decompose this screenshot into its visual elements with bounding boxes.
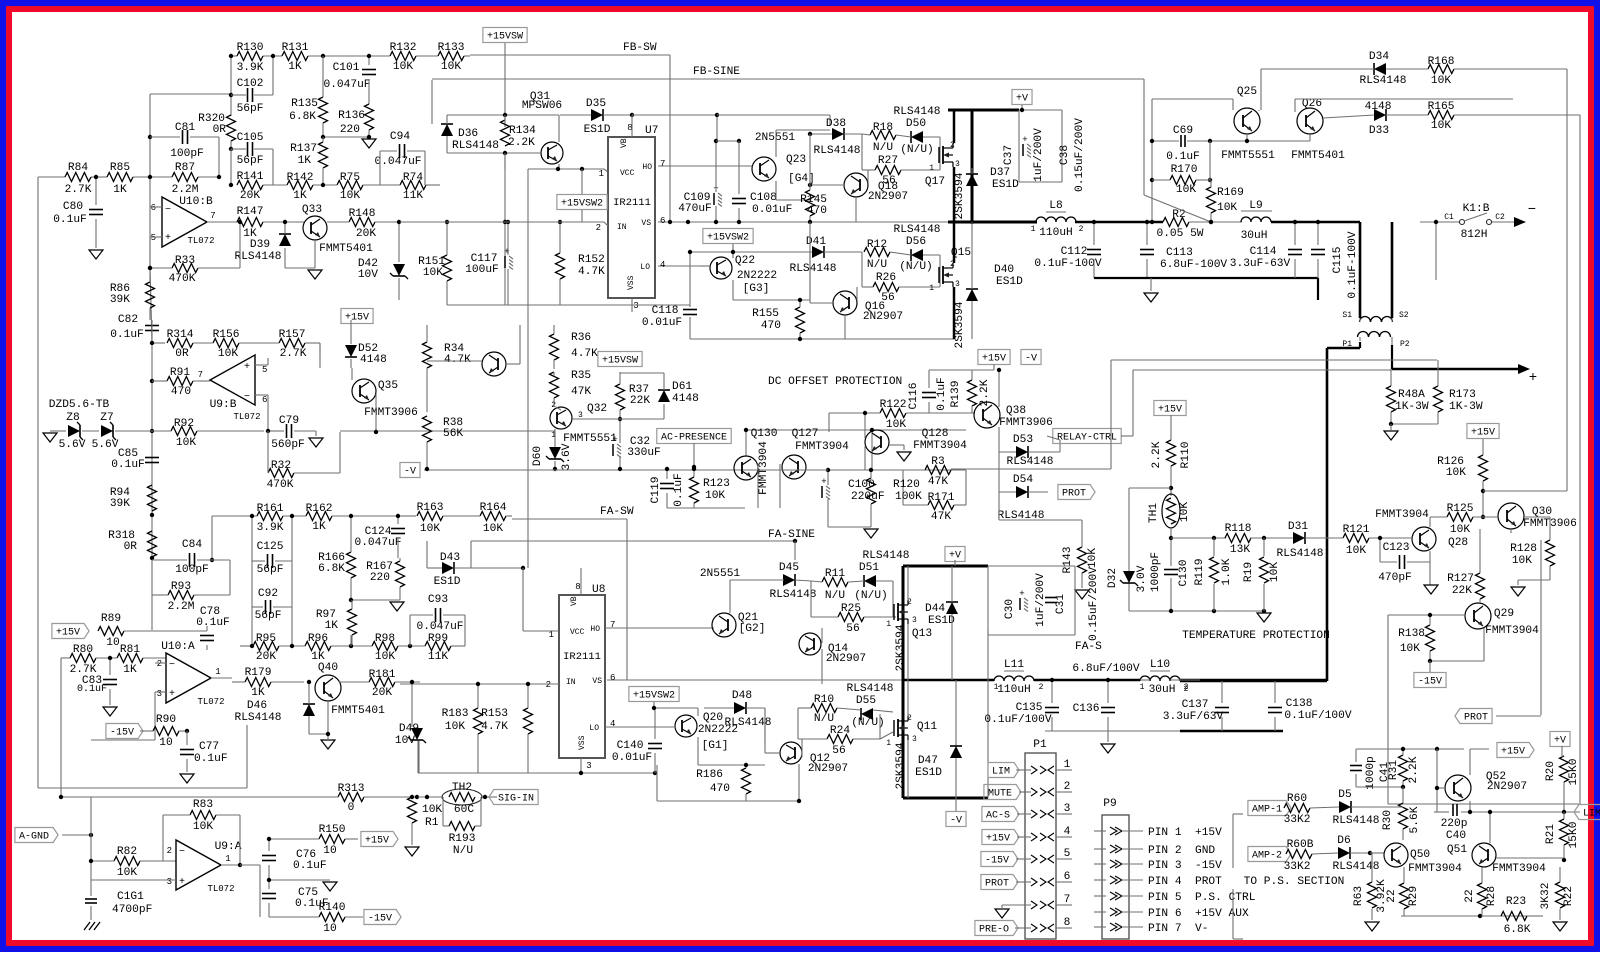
svg-text:+15VSW2: +15VSW2 xyxy=(561,199,603,210)
svg-text:−: − xyxy=(1528,202,1536,218)
svg-text:ES1D: ES1D xyxy=(928,615,955,627)
svg-text:+: + xyxy=(1529,370,1537,386)
svg-text:FMMT5551: FMMT5551 xyxy=(563,433,617,445)
svg-text:PIN 5 P.S. CTRL: PIN 5 P.S. CTRL xyxy=(1148,892,1256,904)
svg-text:7: 7 xyxy=(198,370,203,380)
svg-text:0: 0 xyxy=(348,802,355,814)
svg-text:R136: R136 xyxy=(338,110,365,122)
svg-text:C92: C92 xyxy=(258,588,278,600)
svg-text:+V: +V xyxy=(1016,94,1028,105)
svg-text:RLS4148: RLS4148 xyxy=(1007,456,1054,468)
svg-text:0.01uF: 0.01uF xyxy=(612,752,652,764)
svg-text:2N5551: 2N5551 xyxy=(755,132,796,144)
svg-text:220: 220 xyxy=(370,572,390,584)
svg-text:D51: D51 xyxy=(859,562,879,574)
svg-text:22: 22 xyxy=(1386,889,1398,902)
svg-text:D32: D32 xyxy=(1107,568,1119,588)
svg-text:C118: C118 xyxy=(652,305,679,317)
svg-text:PRE-O: PRE-O xyxy=(979,925,1009,936)
svg-text:10K: 10K xyxy=(422,804,442,816)
svg-text:R130: R130 xyxy=(237,42,264,54)
svg-text:6.8uF/100V: 6.8uF/100V xyxy=(1072,663,1139,675)
svg-text:0.047uF: 0.047uF xyxy=(355,537,402,549)
svg-text:D33: D33 xyxy=(1369,125,1389,137)
svg-text:U9:B: U9:B xyxy=(210,399,237,411)
svg-text:10K: 10K xyxy=(375,651,395,663)
svg-text:20K: 20K xyxy=(240,190,260,202)
svg-text:R133: R133 xyxy=(438,42,465,54)
svg-text:2: 2 xyxy=(1184,685,1189,694)
svg-text:RLS4148: RLS4148 xyxy=(814,145,861,157)
svg-text:Q35: Q35 xyxy=(378,380,398,392)
svg-text:PIN 6 +15V AUX: PIN 6 +15V AUX xyxy=(1148,908,1249,920)
svg-text:10K: 10K xyxy=(483,523,503,535)
svg-text:0.1uF: 0.1uF xyxy=(673,473,685,507)
svg-text:TEMPERATURE PROTECTION: TEMPERATURE PROTECTION xyxy=(1182,630,1330,642)
svg-text:1: 1 xyxy=(929,284,934,293)
svg-text:D37: D37 xyxy=(990,167,1010,179)
svg-text:10K: 10K xyxy=(1431,75,1451,87)
svg-text:D39: D39 xyxy=(250,239,270,251)
svg-text:+15VSW: +15VSW xyxy=(487,32,523,43)
svg-text:4700pF: 4700pF xyxy=(112,904,152,916)
svg-text:1K: 1K xyxy=(251,687,265,699)
svg-text:5.6V: 5.6V xyxy=(92,439,119,451)
svg-text:10K: 10K xyxy=(1346,545,1366,557)
svg-text:R22: R22 xyxy=(1563,886,1575,906)
svg-text:10K: 10K xyxy=(445,721,465,733)
svg-text:R125: R125 xyxy=(1447,503,1474,515)
svg-text:C30: C30 xyxy=(1004,599,1016,619)
svg-text:1K: 1K xyxy=(113,184,127,196)
svg-text:RLS4148: RLS4148 xyxy=(452,140,499,152)
svg-text:D34: D34 xyxy=(1369,51,1389,63)
svg-text:1K-3W: 1K-3W xyxy=(1449,401,1483,413)
svg-text:D47: D47 xyxy=(918,755,938,767)
svg-text:+15VSW: +15VSW xyxy=(602,356,638,367)
svg-text:1K: 1K xyxy=(123,664,137,676)
svg-text:C94: C94 xyxy=(390,131,410,143)
svg-text:2: 2 xyxy=(596,223,601,233)
svg-text:N/U: N/U xyxy=(825,590,845,602)
svg-text:C137: C137 xyxy=(1182,699,1209,711)
svg-text:R31: R31 xyxy=(1388,760,1400,780)
svg-text:R19: R19 xyxy=(1243,562,1255,582)
svg-text:0.15uF/200V: 0.15uF/200V xyxy=(1088,567,1100,641)
svg-text:C38: C38 xyxy=(1059,145,1071,165)
svg-text:812H: 812H xyxy=(1461,229,1488,241)
svg-text:ES1D: ES1D xyxy=(992,179,1019,191)
svg-text:C84: C84 xyxy=(182,539,202,551)
svg-text:3.9K: 3.9K xyxy=(237,62,264,74)
svg-text:470K: 470K xyxy=(267,479,294,491)
svg-text:10: 10 xyxy=(323,845,337,857)
svg-text:FA-SINE: FA-SINE xyxy=(768,529,815,541)
svg-text:FMMT5401: FMMT5401 xyxy=(331,705,385,717)
svg-text:FB-SW: FB-SW xyxy=(623,42,657,54)
svg-text:C125: C125 xyxy=(257,541,284,553)
svg-text:D31: D31 xyxy=(1288,521,1308,533)
svg-text:Q22: Q22 xyxy=(735,255,755,267)
svg-text:47K: 47K xyxy=(571,386,591,398)
svg-text:R131: R131 xyxy=(282,42,309,54)
svg-text:Q23: Q23 xyxy=(786,154,806,166)
svg-text:-V: -V xyxy=(404,467,416,478)
svg-text:C37: C37 xyxy=(1003,145,1015,165)
svg-text:R147: R147 xyxy=(237,206,264,218)
svg-text:R28: R28 xyxy=(1486,886,1498,906)
svg-text:5.6V: 5.6V xyxy=(59,439,86,451)
svg-text:P1: P1 xyxy=(1033,739,1047,751)
svg-text:FB-SINE: FB-SINE xyxy=(693,66,740,78)
svg-text:C105: C105 xyxy=(237,132,264,144)
svg-text:3: 3 xyxy=(633,301,638,311)
svg-text:R23: R23 xyxy=(1506,896,1526,908)
svg-text:0.047uF: 0.047uF xyxy=(324,79,371,91)
svg-text:FMMT3906: FMMT3906 xyxy=(364,407,418,419)
svg-text:R153: R153 xyxy=(481,708,508,720)
svg-text:(N/U): (N/U) xyxy=(900,144,934,156)
svg-text:5: 5 xyxy=(151,233,156,243)
svg-text:3: 3 xyxy=(955,280,960,289)
svg-text:11K: 11K xyxy=(428,651,448,663)
svg-text:-15V: -15V xyxy=(368,914,392,925)
svg-text:2N5551: 2N5551 xyxy=(700,568,741,580)
svg-text:D61: D61 xyxy=(672,381,692,393)
svg-text:PIN 7 V-: PIN 7 V- xyxy=(1148,923,1208,935)
svg-text:L9: L9 xyxy=(1249,200,1262,212)
svg-text:20K: 20K xyxy=(356,228,376,240)
svg-text:C101: C101 xyxy=(333,62,360,74)
svg-text:1: 1 xyxy=(1031,225,1036,234)
svg-text:1: 1 xyxy=(929,164,934,173)
svg-text:C2: C2 xyxy=(1495,213,1505,222)
svg-text:FMMT5401: FMMT5401 xyxy=(1291,150,1345,162)
svg-text:R156: R156 xyxy=(213,329,240,341)
svg-text:3: 3 xyxy=(167,877,172,887)
svg-text:0R: 0R xyxy=(213,124,227,136)
svg-text:PROT: PROT xyxy=(1062,489,1086,500)
svg-text:R89: R89 xyxy=(101,613,121,625)
svg-text:R132: R132 xyxy=(390,42,417,54)
svg-text:2: 2 xyxy=(1064,781,1071,793)
svg-text:ES1D: ES1D xyxy=(915,767,942,779)
svg-text:VS: VS xyxy=(592,677,602,686)
svg-text:R313: R313 xyxy=(338,783,365,795)
svg-text:10K: 10K xyxy=(1176,184,1196,196)
svg-text:U9:A: U9:A xyxy=(215,841,242,853)
svg-text:D36: D36 xyxy=(458,128,478,140)
svg-text:0.1uF: 0.1uF xyxy=(194,753,228,765)
svg-text:3: 3 xyxy=(912,735,917,744)
svg-text:+: + xyxy=(1019,589,1024,599)
svg-text:C82: C82 xyxy=(118,314,138,326)
svg-text:Q130: Q130 xyxy=(751,428,778,440)
svg-text:C40: C40 xyxy=(1446,830,1466,842)
svg-text:Q32: Q32 xyxy=(587,403,607,415)
svg-text:+: + xyxy=(169,689,175,700)
svg-text:Q51: Q51 xyxy=(1447,844,1467,856)
svg-text:LO: LO xyxy=(640,263,650,272)
svg-text:R165: R165 xyxy=(1428,101,1455,113)
svg-text:R20: R20 xyxy=(1545,761,1557,781)
svg-text:FA-S: FA-S xyxy=(1075,641,1102,653)
svg-text:0.1uF: 0.1uF xyxy=(53,214,87,226)
svg-text:2N2907: 2N2907 xyxy=(808,763,848,775)
svg-text:R140: R140 xyxy=(319,902,346,914)
svg-text:Q25: Q25 xyxy=(1237,86,1257,98)
svg-text:C136: C136 xyxy=(1073,703,1100,715)
svg-text:−: − xyxy=(165,205,171,216)
svg-text:TO P.S. SECTION: TO P.S. SECTION xyxy=(1244,876,1345,888)
svg-text:+15VSW2: +15VSW2 xyxy=(707,233,749,244)
svg-text:C1: C1 xyxy=(1444,213,1454,222)
svg-text:Q11: Q11 xyxy=(917,721,937,733)
svg-text:C140: C140 xyxy=(617,740,644,752)
svg-text:0.01uF: 0.01uF xyxy=(642,317,682,329)
svg-text:N/U: N/U xyxy=(867,259,887,271)
svg-text:3: 3 xyxy=(912,616,917,625)
svg-text:3.6V: 3.6V xyxy=(561,443,573,470)
svg-text:2SK3594: 2SK3594 xyxy=(895,624,907,671)
svg-text:RELAY-CTRL: RELAY-CTRL xyxy=(1057,433,1117,444)
svg-text:Q13: Q13 xyxy=(912,628,932,640)
svg-text:R193: R193 xyxy=(449,833,476,845)
svg-text:470: 470 xyxy=(710,783,730,795)
svg-text:−: − xyxy=(179,847,185,858)
svg-text:U7: U7 xyxy=(645,125,658,137)
svg-text:0.05 5W: 0.05 5W xyxy=(1157,228,1204,240)
svg-text:+15V: +15V xyxy=(56,628,80,639)
svg-text:D40: D40 xyxy=(994,264,1014,276)
svg-text:R170: R170 xyxy=(1171,164,1198,176)
svg-text:1: 1 xyxy=(599,169,604,179)
svg-text:RLS4148: RLS4148 xyxy=(1360,75,1407,87)
svg-text:10K: 10K xyxy=(1217,202,1237,214)
svg-text:1: 1 xyxy=(886,739,891,748)
svg-text:FMMT5551: FMMT5551 xyxy=(1221,150,1275,162)
svg-text:2: 2 xyxy=(546,680,551,690)
svg-text:ES1D: ES1D xyxy=(584,124,611,136)
svg-text:6.8K: 6.8K xyxy=(318,563,345,575)
svg-text:R169: R169 xyxy=(1217,187,1244,199)
svg-text:8: 8 xyxy=(575,582,580,592)
svg-text:3.3uF-63V: 3.3uF-63V xyxy=(1230,258,1291,270)
svg-text:VB: VB xyxy=(570,596,579,606)
svg-text:+15V: +15V xyxy=(1471,428,1495,439)
svg-text:2.2K: 2.2K xyxy=(1151,441,1163,468)
svg-text:110uH: 110uH xyxy=(997,684,1031,696)
svg-text:1: 1 xyxy=(886,620,891,629)
svg-text:10K: 10K xyxy=(1446,467,1466,479)
svg-text:R155: R155 xyxy=(752,308,779,320)
svg-text:R135: R135 xyxy=(291,98,318,110)
svg-text:4: 4 xyxy=(660,260,665,270)
svg-text:0.1uF: 0.1uF xyxy=(196,617,230,629)
svg-text:FMMT3904: FMMT3904 xyxy=(1375,509,1429,521)
svg-text:-15V: -15V xyxy=(985,856,1009,867)
svg-text:[G2]: [G2] xyxy=(739,623,766,635)
svg-text:330uF: 330uF xyxy=(627,447,661,459)
svg-text:10K: 10K xyxy=(1431,120,1451,132)
svg-text:30uH: 30uH xyxy=(1149,684,1176,696)
svg-text:6: 6 xyxy=(262,395,267,405)
svg-text:C77: C77 xyxy=(199,741,219,753)
svg-text:VS: VS xyxy=(641,219,651,228)
svg-text:ES1D: ES1D xyxy=(996,276,1023,288)
svg-text:RLS4148: RLS4148 xyxy=(1333,815,1380,827)
svg-text:2N2222: 2N2222 xyxy=(737,270,777,282)
svg-text:R3: R3 xyxy=(931,456,944,468)
svg-text:56: 56 xyxy=(832,745,845,757)
svg-text:Q28: Q28 xyxy=(1448,537,1468,549)
svg-text:8: 8 xyxy=(1064,917,1071,929)
svg-text:MUTE: MUTE xyxy=(988,789,1012,800)
svg-text:5.6K: 5.6K xyxy=(1409,806,1421,833)
svg-text:10K: 10K xyxy=(423,267,443,279)
svg-text:LIM: LIM xyxy=(992,767,1010,778)
svg-text:56pF: 56pF xyxy=(237,103,264,115)
svg-text:AMP-1: AMP-1 xyxy=(1252,805,1282,816)
svg-text:470uF: 470uF xyxy=(678,203,712,215)
svg-text:FMMT3904: FMMT3904 xyxy=(1408,863,1462,875)
svg-text:2SK3594: 2SK3594 xyxy=(954,301,966,348)
svg-text:Q17: Q17 xyxy=(925,176,945,188)
svg-text:3.3uF/63V: 3.3uF/63V xyxy=(1163,711,1224,723)
svg-text:FMMT3904: FMMT3904 xyxy=(1492,863,1546,875)
svg-text:HO: HO xyxy=(642,163,652,172)
svg-text:R121: R121 xyxy=(1343,524,1370,536)
svg-text:13K: 13K xyxy=(1230,544,1250,556)
svg-text:10K: 10K xyxy=(1450,524,1470,536)
svg-text:2.7K: 2.7K xyxy=(280,348,307,360)
svg-text:FMMT3904: FMMT3904 xyxy=(1485,625,1539,637)
svg-text:R30: R30 xyxy=(1382,810,1394,830)
svg-text:110uH: 110uH xyxy=(1039,227,1073,239)
svg-text:R314: R314 xyxy=(167,329,194,341)
svg-text:4148: 4148 xyxy=(672,393,699,405)
svg-text:6.8K: 6.8K xyxy=(289,111,316,123)
svg-text:R90: R90 xyxy=(156,714,176,726)
svg-text:Q50: Q50 xyxy=(1410,849,1430,861)
svg-text:VSS: VSS xyxy=(578,735,587,750)
svg-text:R164: R164 xyxy=(480,502,507,514)
svg-text:+: + xyxy=(179,877,185,888)
svg-text:+15V: +15V xyxy=(365,836,389,847)
svg-text:C138: C138 xyxy=(1286,698,1313,710)
svg-text:0.01uF: 0.01uF xyxy=(752,204,792,216)
svg-text:C114: C114 xyxy=(1250,246,1277,258)
svg-text:10K: 10K xyxy=(1269,562,1281,582)
svg-text:D56: D56 xyxy=(906,236,926,248)
svg-text:S1: S1 xyxy=(1342,311,1352,320)
svg-text:1K: 1K xyxy=(312,521,326,533)
svg-text:+V: +V xyxy=(949,551,961,562)
svg-text:PIN 4 PROT: PIN 4 PROT xyxy=(1148,876,1222,888)
svg-text:6: 6 xyxy=(660,216,665,226)
svg-text:Q127: Q127 xyxy=(792,428,819,440)
svg-text:3.9K: 3.9K xyxy=(257,522,284,534)
svg-text:10K: 10K xyxy=(886,419,906,431)
svg-text:33K2: 33K2 xyxy=(1284,814,1311,826)
svg-text:6: 6 xyxy=(1064,871,1071,883)
svg-text:10K: 10K xyxy=(1400,643,1420,655)
svg-text:D50: D50 xyxy=(906,118,926,130)
svg-text:30uH: 30uH xyxy=(1241,230,1268,242)
svg-text:U8: U8 xyxy=(592,584,605,596)
svg-text:MPSW06: MPSW06 xyxy=(522,100,562,112)
svg-text:N/U: N/U xyxy=(453,845,473,857)
svg-text:R138: R138 xyxy=(1398,628,1425,640)
svg-text:R141: R141 xyxy=(237,171,264,183)
svg-text:D44: D44 xyxy=(925,603,945,615)
svg-text:10K: 10K xyxy=(705,490,725,502)
svg-text:C80: C80 xyxy=(63,201,83,213)
svg-text:-15V: -15V xyxy=(1418,677,1442,688)
svg-text:FMMT5401: FMMT5401 xyxy=(319,243,373,255)
svg-text:10K: 10K xyxy=(117,867,137,879)
svg-text:22: 22 xyxy=(1464,889,1476,902)
svg-text:−: − xyxy=(169,660,175,671)
svg-text:7: 7 xyxy=(660,159,665,169)
svg-text:D43: D43 xyxy=(440,552,460,564)
svg-text:R85: R85 xyxy=(110,162,130,174)
svg-text:100pF: 100pF xyxy=(175,564,209,576)
svg-text:0.1uF: 0.1uF xyxy=(293,860,327,872)
svg-text:10K: 10K xyxy=(193,821,213,833)
svg-text:2: 2 xyxy=(157,659,162,669)
svg-text:0.047uF: 0.047uF xyxy=(375,156,422,168)
svg-text:C108: C108 xyxy=(750,192,777,204)
svg-text:2: 2 xyxy=(1079,225,1084,234)
svg-text:4: 4 xyxy=(1064,826,1071,838)
svg-text:RLS4148: RLS4148 xyxy=(770,589,817,601)
svg-text:R143: R143 xyxy=(1062,547,1074,574)
svg-text:D55: D55 xyxy=(856,695,876,707)
svg-text:2SK3594: 2SK3594 xyxy=(895,742,907,789)
svg-text:10K: 10K xyxy=(218,348,238,360)
svg-text:2.7K: 2.7K xyxy=(65,184,92,196)
svg-text:10V: 10V xyxy=(395,735,415,747)
svg-text:56pF: 56pF xyxy=(257,564,284,576)
svg-text:C116: C116 xyxy=(908,383,920,410)
svg-text:3: 3 xyxy=(955,160,960,169)
svg-text:-15V: -15V xyxy=(110,728,134,739)
svg-text:100K: 100K xyxy=(895,491,922,503)
svg-text:Q33: Q33 xyxy=(302,204,322,216)
svg-text:C130: C130 xyxy=(1178,559,1190,586)
svg-text:D6: D6 xyxy=(1337,835,1350,847)
svg-text:3.0V: 3.0V xyxy=(1136,565,1148,592)
svg-text:R183: R183 xyxy=(442,708,469,720)
svg-text:L8: L8 xyxy=(1049,200,1062,212)
svg-text:4148: 4148 xyxy=(360,354,387,366)
svg-text:4.7K: 4.7K xyxy=(578,266,605,278)
svg-text:2: 2 xyxy=(1039,683,1044,692)
svg-text:RLS4148: RLS4148 xyxy=(790,263,837,275)
svg-text:0R: 0R xyxy=(175,348,189,360)
svg-text:1K-3W: 1K-3W xyxy=(1395,401,1429,413)
svg-text:6: 6 xyxy=(610,673,615,683)
svg-text:R139: R139 xyxy=(950,381,962,408)
svg-text:2SK3594: 2SK3594 xyxy=(954,172,966,219)
svg-text:3K32: 3K32 xyxy=(1540,883,1552,910)
svg-text:FA-SW: FA-SW xyxy=(600,506,634,518)
svg-text:IN: IN xyxy=(566,678,576,687)
svg-text:C102: C102 xyxy=(237,78,264,90)
svg-text:R157: R157 xyxy=(279,329,306,341)
svg-text:10: 10 xyxy=(323,923,337,935)
